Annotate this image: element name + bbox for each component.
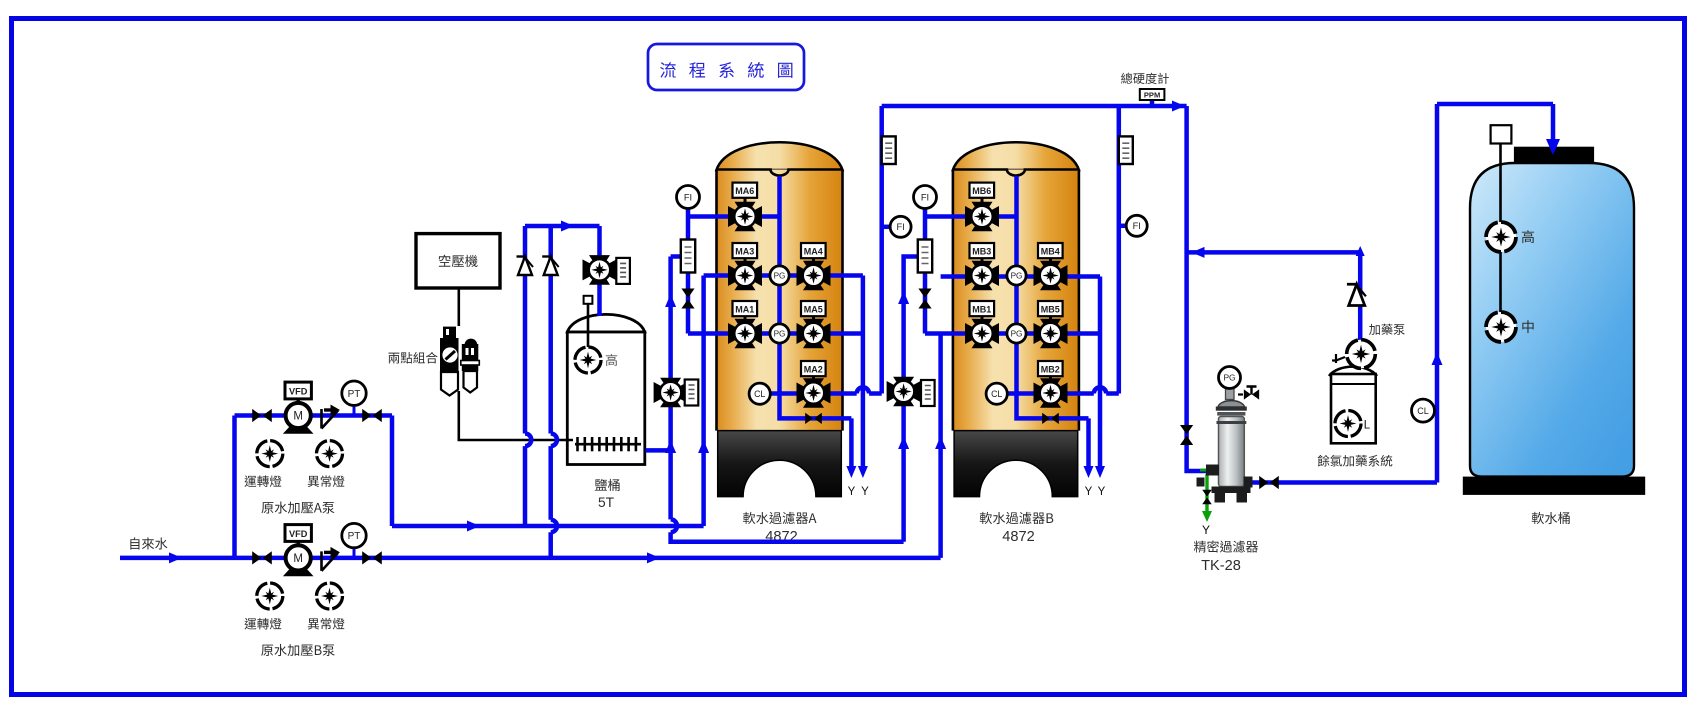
svg-text:PG: PG [774,272,786,281]
svg-text:MA4: MA4 [804,247,823,257]
svg-text:4872: 4872 [1002,529,1034,545]
svg-text:FI: FI [1133,221,1141,231]
svg-text:MB2: MB2 [1041,365,1060,375]
svg-text:MA3: MA3 [735,247,754,257]
svg-text:M: M [293,411,303,423]
svg-text:CL: CL [991,389,1002,399]
svg-text:PG: PG [1223,373,1235,383]
svg-text:FI: FI [684,192,692,202]
svg-text:L: L [1364,420,1371,432]
svg-text:PG: PG [1011,272,1023,281]
svg-text:MA2: MA2 [804,365,823,375]
svg-text:Y: Y [861,486,869,498]
svg-text:MA6: MA6 [735,186,754,196]
svg-text:VFD: VFD [289,387,308,397]
svg-text:PPM: PPM [1144,91,1160,100]
svg-text:TK-28: TK-28 [1201,558,1241,574]
svg-text:VFD: VFD [289,529,308,539]
svg-text:M: M [293,553,303,565]
svg-text:MB6: MB6 [972,186,991,196]
svg-text:MB5: MB5 [1041,305,1060,315]
svg-text:PG: PG [774,330,786,339]
svg-text:FI: FI [921,192,929,202]
svg-text:MB3: MB3 [972,247,991,257]
svg-text:CL: CL [1417,406,1429,416]
svg-text:MA5: MA5 [804,305,823,315]
svg-text:CL: CL [754,389,765,399]
svg-text:Y: Y [1202,523,1210,537]
svg-text:PT: PT [348,531,361,542]
svg-text:MB1: MB1 [972,305,991,315]
svg-text:MB4: MB4 [1041,247,1060,257]
svg-text:PG: PG [1011,330,1023,339]
svg-text:Y: Y [1085,486,1093,498]
svg-text:PT: PT [348,389,361,400]
svg-text:FI: FI [896,222,904,232]
svg-text:MA1: MA1 [735,305,754,315]
svg-text:Y: Y [1098,486,1106,498]
svg-text:Y: Y [848,486,856,498]
svg-text:5T: 5T [598,495,615,510]
